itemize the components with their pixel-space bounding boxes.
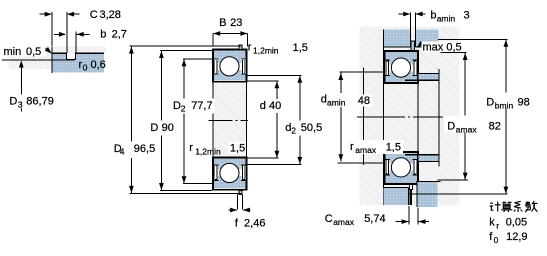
dimension D4: dimension line bbox=[130, 46, 132, 193]
dimension b arrow left bbox=[54, 33, 65, 35]
dimension d2: dimension line bbox=[299, 75, 301, 164]
dimension d2: extension lines bbox=[247, 74, 302, 76]
max 0,5 leader arrow bbox=[418, 42, 424, 47]
dimension D: extension lines bbox=[160, 50, 212, 52]
dimension C: extension line at side face bbox=[51, 12, 53, 47]
dimension D4: extension lines bbox=[130, 45, 241, 47]
dimension D2 label bbox=[171, 99, 215, 114]
dimension D3 label bbox=[7, 95, 56, 109]
svg-text:1,2min: 1,2min bbox=[253, 46, 279, 56]
middle bearing: snap ring tab upper bbox=[239, 45, 242, 49]
svg-text:B: B bbox=[219, 17, 226, 29]
svg-text:C: C bbox=[325, 213, 333, 225]
right figure: housing block upper left bbox=[384, 29, 411, 47]
right figure: snap ring upper (in housing gap) bbox=[411, 41, 414, 51]
svg-text:82: 82 bbox=[489, 121, 501, 133]
svg-text:3: 3 bbox=[464, 10, 470, 22]
svg-text:98: 98 bbox=[518, 97, 530, 109]
right figure: snap ring groove gap (black) bbox=[409, 190, 412, 205]
svg-text:b: b bbox=[100, 29, 106, 41]
svg-text:1,5: 1,5 bbox=[386, 142, 401, 154]
dimension D2: dimension line bbox=[183, 59, 185, 184]
middle bearing: snap ring tab lower bbox=[239, 190, 242, 194]
left detail: faint hatch band above ring section bbox=[52, 47, 106, 54]
svg-text:C: C bbox=[90, 9, 98, 21]
right figure: hatched shaft/housing background bbox=[360, 27, 460, 206]
dimension d: dimension line bbox=[276, 81, 278, 158]
svg-text:48: 48 bbox=[358, 95, 370, 107]
dimension D: dimension line bbox=[160, 51, 162, 191]
left detail: D3 groove-bottom reference line bbox=[2, 59, 68, 61]
svg-text:3: 3 bbox=[18, 100, 23, 110]
shaft shoulder surface line upper bbox=[340, 71, 384, 73]
dimension C_amax: extension lines bbox=[408, 206, 410, 225]
svg-text:1,5: 1,5 bbox=[293, 42, 308, 54]
dimension d_amin: dimension line bbox=[340, 73, 342, 162]
dimension b arrow right bbox=[77, 33, 90, 35]
r_amax label bbox=[346, 140, 403, 154]
svg-text:min: min bbox=[4, 46, 22, 58]
min 0,5 label box bbox=[1, 45, 46, 57]
dimension D_bmin: dimension line bbox=[505, 39, 507, 194]
svg-text:amin: amin bbox=[327, 98, 346, 108]
right figure: shaft shoulder strip lower bbox=[419, 155, 439, 161]
svg-text:d: d bbox=[260, 100, 266, 112]
svg-text:2: 2 bbox=[291, 126, 296, 136]
dimension D_bmin label bbox=[483, 93, 535, 109]
dimension D_amax: extension lines bbox=[440, 52, 466, 54]
svg-text:2: 2 bbox=[181, 104, 186, 114]
svg-text:0: 0 bbox=[494, 235, 499, 245]
dimension d2 label bbox=[283, 121, 325, 136]
dimension b: extension line at groove far edge bbox=[75, 32, 77, 53]
svg-text:2,7: 2,7 bbox=[112, 29, 127, 41]
dimension D label bbox=[148, 121, 174, 136]
svg-text:f 2,46: f 2,46 bbox=[235, 217, 266, 229]
right figure: left section-cut edge line bbox=[383, 29, 385, 205]
dimension B: dimension line with outward arrows bbox=[213, 33, 247, 35]
middle bearing: lower ring cross-section (mirrored) bbox=[213, 158, 247, 190]
svg-text:23: 23 bbox=[230, 17, 242, 29]
svg-text:amax: amax bbox=[355, 145, 377, 155]
left detail: ring side face line bbox=[51, 47, 53, 73]
svg-text:r: r bbox=[189, 142, 193, 154]
svg-text:5,74: 5,74 bbox=[364, 213, 385, 225]
svg-text:d: d bbox=[321, 94, 327, 106]
svg-text:77,7: 77,7 bbox=[191, 100, 212, 112]
svg-text:40: 40 bbox=[269, 100, 281, 112]
svg-text:D: D bbox=[173, 100, 181, 112]
left detail: outer ring section (blue) with snap ring groove bbox=[52, 53, 104, 72]
middle bearing: axis center mark (dash-dot) bbox=[209, 119, 249, 121]
svg-text:max 0,5: max 0,5 bbox=[423, 42, 462, 54]
dimension C_amax arrows bbox=[396, 221, 409, 223]
svg-text:12,9: 12,9 bbox=[506, 231, 527, 243]
dimension f: extension lines bbox=[237, 195, 239, 210]
svg-text:bmin: bmin bbox=[495, 101, 514, 111]
dimension d: extension lines bbox=[248, 80, 279, 82]
middle bearing: upper ring cross-section bbox=[213, 50, 247, 82]
shaft shoulder end face line bbox=[362, 68, 364, 166]
dimension b_amin arrows bbox=[399, 13, 410, 15]
svg-text:1,5: 1,5 bbox=[230, 143, 245, 155]
dimension B: extension lines bbox=[212, 34, 214, 47]
svg-text:r: r bbox=[350, 141, 354, 153]
right figure: shaft shoulder strip upper bbox=[419, 74, 439, 80]
right figure: housing block lower left bbox=[384, 187, 409, 205]
svg-text:D: D bbox=[150, 122, 158, 134]
svg-text:r: r bbox=[248, 41, 252, 53]
calculation factors header (Chinese characters) bbox=[490, 201, 538, 212]
svg-text:0,6: 0,6 bbox=[91, 59, 106, 71]
right figure: housing groove edges upper bbox=[409, 29, 411, 47]
dimension D2: extension lines bbox=[183, 58, 212, 60]
dimension C arrow right bbox=[68, 13, 80, 15]
right figure: shaft seat edge line (bore silhouette right) bbox=[417, 83, 419, 153]
right figure: lower bearing cross-section bbox=[384, 152, 418, 184]
min 0,5 leader arrow bbox=[46, 48, 52, 53]
svg-text:86,79: 86,79 bbox=[26, 96, 54, 108]
svg-text:0,05: 0,05 bbox=[506, 217, 527, 229]
dimension b_amin: extension lines bbox=[409, 13, 411, 30]
right figure: upper bearing cross-section bbox=[384, 51, 418, 83]
svg-text:b: b bbox=[430, 10, 436, 22]
r_12min lower label bbox=[229, 142, 247, 154]
svg-text:r: r bbox=[496, 221, 499, 231]
svg-text:0: 0 bbox=[83, 63, 88, 73]
middle bearing: bore hatch strip between ring sections bbox=[213, 83, 246, 158]
svg-text:D: D bbox=[9, 96, 17, 108]
dimension C/b: extension line at groove near edge bbox=[66, 12, 68, 53]
right figure: housing block lower right bbox=[417, 182, 437, 207]
dimension C arrow left bbox=[40, 13, 51, 15]
right figure: shaft shoulder face line bbox=[438, 69, 440, 166]
right figure: housing block upper right bbox=[415, 29, 438, 47]
shaft shoulder surface line lower bbox=[337, 162, 383, 164]
dimension f arrows bbox=[229, 209, 237, 211]
svg-text:3,28: 3,28 bbox=[100, 9, 121, 21]
dimension D_amax label bbox=[444, 116, 486, 133]
svg-text:D: D bbox=[447, 121, 455, 133]
left detail: ring top surface and groove outline bbox=[52, 53, 104, 60]
svg-text:50,5: 50,5 bbox=[301, 122, 322, 134]
dimension d label bbox=[257, 99, 282, 113]
svg-text:amax: amax bbox=[456, 125, 478, 135]
svg-text:0,5: 0,5 bbox=[26, 46, 41, 58]
svg-text:amax: amax bbox=[333, 217, 355, 227]
svg-text:amin: amin bbox=[437, 14, 456, 24]
svg-text:96,5: 96,5 bbox=[134, 143, 155, 155]
dimension D_bmin: extension lines bbox=[438, 38, 507, 40]
dimension D3 arrow bbox=[20, 62, 22, 112]
svg-text:90: 90 bbox=[162, 122, 174, 134]
svg-text:4: 4 bbox=[120, 146, 125, 156]
svg-text:1,2min: 1,2min bbox=[195, 147, 221, 157]
dimension D4 label bbox=[111, 142, 156, 159]
right figure: axis centerline (dash-dot) bbox=[357, 116, 443, 118]
right figure: snap ring lower (white) in housing groove bbox=[409, 184, 412, 189]
max 0,5 label bbox=[422, 42, 461, 53]
dimension D_amax: dimension line bbox=[464, 53, 466, 180]
svg-text:D: D bbox=[486, 97, 494, 109]
left detail: faint hatch band left of ring section bbox=[9, 46, 52, 69]
svg-text:k: k bbox=[489, 217, 495, 229]
middle bearing: bore silhouette lines bbox=[212, 83, 214, 158]
svg-text:f: f bbox=[489, 231, 493, 243]
dimension d_amin label bbox=[318, 93, 355, 107]
